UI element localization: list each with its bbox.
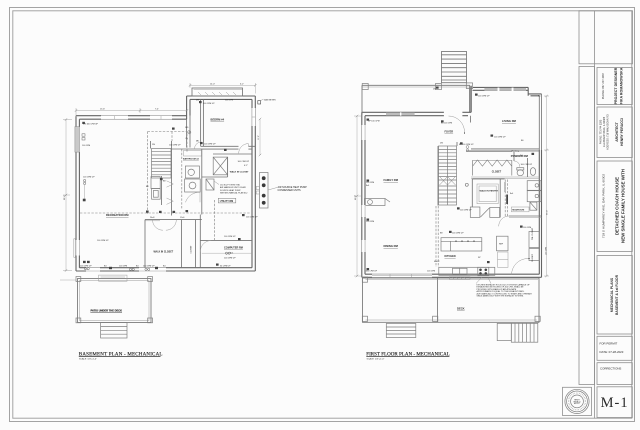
svg-text:ADDRESS: 716 WAUKEGAN RD: ADDRESS: 716 WAUKEGAN RD (607, 114, 610, 150)
svg-text:28'-4": 28'-4" (64, 195, 66, 200)
svg-text:Plumbing: Plumbing (512, 151, 520, 153)
svg-text:100 CFM UP: 100 CFM UP (143, 265, 155, 267)
basement exterior walls (76, 96, 255, 271)
svg-text:PROJECT DESIGNER: PROJECT DESIGNER (614, 67, 618, 104)
svg-text:HENRY: HENRY (574, 399, 580, 401)
svg-text:SCALE: 1/4"=1'-0": SCALE: 1/4"=1'-0" (367, 358, 385, 361)
svg-text:HENRY PERACCI: HENRY PERACCI (620, 118, 624, 146)
svg-text:GAS METER: GAS METER (264, 99, 276, 102)
closet door arcs (153, 220, 163, 230)
svg-text:SEE MECHANICAL PLAN M-2: SEE MECHANICAL PLAN M-2 (220, 192, 248, 195)
basement kitchenette cabinets (151, 177, 160, 200)
svg-text:100 CFM: 100 CFM (546, 246, 548, 255)
bottom wall windows (372, 274, 432, 278)
svg-text:33'-4": 33'-4" (547, 210, 549, 215)
svg-text:100 CFM UP: 100 CFM UP (97, 240, 109, 242)
powder room (471, 151, 539, 179)
svg-text:100 CFM: 100 CFM (225, 100, 234, 102)
basement window gaps: top wall (101, 115, 172, 120)
svg-text:100 CFM UP: 100 CFM UP (169, 145, 181, 147)
interior stairs (439, 146, 457, 205)
svg-text:100 CFM UP: 100 CFM UP (224, 258, 236, 260)
svg-text:100 CFM UP: 100 CFM UP (460, 210, 472, 212)
svg-text:UTILITY RM: UTILITY RM (220, 200, 233, 203)
svg-text:34 CFM UP: 34 CFM UP (220, 266, 231, 268)
walk-in closet upper walls (213, 153, 252, 155)
mudroom door mark (506, 195, 508, 205)
svg-text:100 CFM UP: 100 CFM UP (494, 137, 506, 139)
svg-text:6'-2": 6'-2" (244, 165, 248, 167)
svg-text:MECHANICAL PLANS: MECHANICAL PLANS (610, 277, 614, 312)
basement stair side wall (171, 141, 173, 216)
svg-text:100 CFM UP: 100 CFM UP (246, 217, 258, 219)
stair well walls (437, 146, 439, 206)
scattered CFM labels (80, 100, 258, 268)
bedroom #4 bottom wall (172, 146, 256, 149)
deck stairs right (497, 323, 538, 342)
svg-text:RECREATION RM: RECREATION RM (106, 213, 129, 217)
svg-text:DINING RM: DINING RM (384, 244, 399, 248)
svg-text:100 CFM UP: 100 CFM UP (204, 144, 216, 146)
svg-text:MD: MD (185, 127, 189, 129)
svg-text:DECK: DECK (457, 307, 465, 311)
svg-text:PHONE: 847 207 4097: PHONE: 847 207 4097 (601, 72, 605, 99)
svg-text:SIMULTANEOUSLY WITH THE EXHAUS: SIMULTANEOUSLY WITH THE EXHAUST SYSTEM. (477, 295, 525, 298)
dimension tick marks (65, 84, 548, 277)
fireplace (365, 199, 391, 206)
mudroom bottom wall (509, 215, 542, 217)
svg-text:MD: MD (196, 141, 200, 143)
title block sheet number box M-1 (597, 387, 632, 418)
mudroom door arc (499, 216, 509, 226)
right wall closets (529, 232, 539, 261)
svg-text:150 SQ FT VENT TBD: 150 SQ FT VENT TBD (220, 185, 241, 187)
svg-text:36": 36" (478, 257, 481, 259)
closet bifold chevrons (167, 181, 174, 205)
small duct diffuser marks (82, 101, 244, 271)
svg-text:MUDROOM: MUDROOM (512, 210, 524, 212)
bathroom sink (185, 166, 199, 178)
svg-text:BASEMENT & 1st FLOOR: BASEMENT & 1st FLOOR (615, 274, 619, 315)
svg-text:SOURCE HEAT PUMP: SOURCE HEAT PUMP (220, 189, 241, 192)
basement top window-well bump (192, 88, 243, 96)
svg-text:100 CFM UP: 100 CFM UP (366, 271, 378, 273)
left wall window gaps (361, 125, 365, 252)
right wall window section (thin) (539, 94, 541, 150)
title block sheet-name box (597, 256, 632, 335)
kitchen island (441, 238, 482, 251)
svg-text:100 CFM: 100 CFM (366, 182, 375, 184)
svg-text:NEW SINGLE FAMILY HOUSE WITH: NEW SINGLE FAMILY HOUSE WITH (621, 169, 626, 243)
computer room walls (199, 215, 201, 268)
svg-text:FOYER: FOYER (445, 131, 454, 134)
gas meter symbol (258, 99, 276, 104)
exterior stair top (442, 52, 467, 83)
bedroom right wall window (252, 108, 256, 126)
deck steps left (386, 324, 416, 338)
svg-text:11'-2": 11'-2" (258, 135, 260, 140)
svg-text:FIKA ROMANOWSKA: FIKA ROMANOWSKA (620, 67, 624, 104)
svg-text:BATHROOM #3: BATHROOM #3 (183, 158, 200, 161)
pantry shelves U (477, 184, 498, 204)
kitchen exhaust note (476, 277, 532, 298)
svg-text:DATE: 07-28-2023: DATE: 07-28-2023 (600, 350, 624, 354)
bathroom door arc (186, 192, 201, 202)
title block revision column (579, 67, 595, 385)
svg-text:CLOSET: CLOSET (191, 245, 193, 254)
counter below refrigerator (498, 252, 509, 267)
svg-text:FOR PERMIT: FOR PERMIT (600, 341, 618, 345)
utility room dashed equipment (206, 179, 214, 190)
svg-text:FAMILY RM: FAMILY RM (384, 178, 399, 182)
svg-text:DN 100 CFM UP: DN 100 CFM UP (83, 124, 99, 126)
dimension texts (64, 83, 260, 200)
svg-text:TRL CLOSET: TRL CLOSET (532, 227, 534, 240)
front porch edge (362, 84, 470, 115)
dimension lines (354, 96, 549, 276)
rec room / closet dividing wall (145, 219, 202, 221)
bedroom door arc (239, 144, 249, 154)
hall duct symbols (188, 131, 191, 134)
svg-text:718 S HUMPHREY AVE, OAK PARK,: 718 S HUMPHREY AVE, OAK PARK, IL 60302 (602, 174, 606, 238)
svg-text:B4 100 CFM: B4 100 CFM (441, 123, 453, 125)
title block project box (597, 161, 632, 252)
kitchen dashed line (435, 206, 437, 267)
architect seal stamp box (563, 387, 592, 415)
basement plan group (60, 83, 548, 361)
svg-text:48x12: 48x12 (434, 261, 440, 263)
hall thermostat (465, 183, 468, 186)
title block corrections box (597, 363, 632, 385)
scattered CFM labels (366, 89, 548, 273)
svg-text:ARCHITECT: ARCHITECT (615, 121, 619, 142)
svg-text:PATIO UNDER THE DECK: PATIO UNDER THE DECK (91, 308, 123, 312)
title block permit box (597, 336, 632, 360)
heat pump condenser units (256, 173, 307, 209)
bathroom #3 walls (181, 149, 183, 209)
svg-text:WALK IN CLOSET: WALK IN CLOSET (154, 251, 174, 254)
svg-text:100 CFM UP: 100 CFM UP (521, 164, 533, 166)
svg-text:100 CFM UP: 100 CFM UP (452, 233, 464, 235)
svg-text:100 CFM UP: 100 CFM UP (224, 236, 236, 238)
bathroom vanity top (184, 151, 202, 157)
svg-text:GLENVIEW PARK, IL 60025: GLENVIEW PARK, IL 60025 (603, 116, 606, 147)
bathroom shower (213, 157, 227, 175)
pantry walls (472, 179, 500, 218)
svg-text:15'-6": 15'-6" (100, 109, 105, 111)
svg-text:LIVING RM: LIVING RM (502, 119, 517, 123)
top wall windows hatch (386, 88, 526, 116)
small diffuser marks (367, 87, 535, 271)
svg-text:42'-6": 42'-6" (355, 195, 357, 200)
svg-text:KITCHEN: KITCHEN (445, 255, 456, 258)
kitchen sink window hatch (449, 277, 470, 280)
svg-text:PHONE: 773 744 3293: PHONE: 773 744 3293 (600, 119, 603, 144)
kitchen counter with sink and range (439, 267, 495, 275)
basement window gaps: left wall (75, 127, 79, 256)
title block designer box (597, 67, 632, 104)
stair side posts (466, 83, 472, 89)
pantry lower cabinets (470, 207, 499, 217)
bathroom toilet (185, 179, 201, 192)
bedroom #4 left wall (200, 99, 202, 146)
mudroom label box (511, 207, 529, 212)
patio under the deck (76, 275, 153, 323)
svg-text:100 CFM: 100 CFM (82, 145, 91, 147)
svg-text:100 CFM: 100 CFM (119, 265, 128, 267)
closet zigzag (hanging rod) (473, 160, 512, 176)
title block architect box (597, 107, 632, 158)
main supply duct dashed line (80, 212, 250, 214)
refrigerator (497, 236, 509, 251)
title block top box (579, 11, 633, 64)
bedroom hall wall (186, 119, 188, 147)
svg-text:7'-4": 7'-4" (155, 109, 159, 111)
svg-text:100 CFM: 100 CFM (523, 227, 532, 229)
svg-text:AIR HANDLER UNIT OF AIR: AIR HANDLER UNIT OF AIR (220, 186, 246, 189)
first floor exterior walls (362, 86, 542, 278)
svg-text:BEDRM #4: BEDRM #4 (211, 118, 225, 122)
svg-text:100 CFM: 100 CFM (427, 271, 436, 273)
first floor plan group (354, 52, 549, 361)
svg-text:M-1: M-1 (601, 395, 629, 411)
svg-text:WALK IN CLOSET: WALK IN CLOSET (230, 171, 249, 174)
patio steps (101, 323, 127, 339)
svg-text:COMPUTER RM: COMPUTER RM (224, 247, 243, 250)
svg-text:UP 100 CFM: UP 100 CFM (368, 121, 380, 123)
svg-text:CLOSET: CLOSET (492, 171, 502, 173)
svg-text:100 CFM UP: 100 CFM UP (203, 103, 215, 105)
svg-text:100 CFM: 100 CFM (366, 221, 375, 223)
svg-text:WALK IN PANTRY: WALK IN PANTRY (480, 189, 499, 192)
svg-text:DETACHED COACH HOUSE: DETACHED COACH HOUSE (615, 177, 620, 235)
title block divider (594, 11, 596, 418)
basement stairs (152, 149, 172, 179)
svg-text:CORRECTIONS: CORRECTIONS (600, 367, 621, 371)
basement dimension line top (60, 83, 260, 280)
svg-text:14'-0": 14'-0" (210, 83, 215, 85)
svg-text:100 CFM UP: 100 CFM UP (80, 265, 92, 267)
svg-text:100 CFM UP: 100 CFM UP (238, 161, 250, 163)
svg-text:6'-2": 6'-2" (240, 83, 244, 85)
closet right wall (181, 220, 183, 268)
svg-text:SCALE: 1/4"=1'-0": SCALE: 1/4"=1'-0" (79, 358, 97, 361)
svg-text:100 CFM UP: 100 CFM UP (478, 96, 490, 98)
mudroom washer dryer (527, 181, 541, 211)
basement window gaps: bottom wall (86, 267, 166, 271)
utility room note (214, 181, 248, 195)
svg-text:CONDENSER UNITS: CONDENSER UNITS (278, 189, 302, 192)
svg-text:100 CFM UP: 100 CFM UP (83, 177, 95, 179)
svg-text:CLOSET: CLOSET (532, 253, 534, 262)
back door arc (512, 259, 529, 276)
deck (362, 277, 540, 322)
living room bottom wall (471, 148, 539, 150)
front door arc (449, 116, 465, 132)
